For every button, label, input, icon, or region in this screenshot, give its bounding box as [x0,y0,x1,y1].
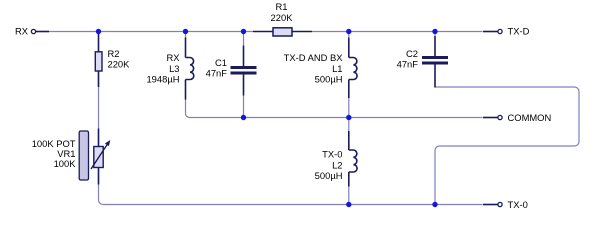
wire top rail left of R1 [49,31,253,33]
inductor L1 [284,32,357,99]
junction node top C1 [241,29,246,34]
junction node top C2 [432,29,437,34]
junction node common C1 [241,115,246,120]
wire L2 bottom [348,187,350,205]
junction node bottom L2 [346,202,351,207]
terminal RX [15,26,49,37]
svg-text:100K: 100K [54,158,77,169]
svg-text:47nF: 47nF [397,59,419,70]
svg-text:TX-0: TX-0 [508,199,528,210]
svg-text:RX: RX [166,52,180,63]
junction node top L1 [346,29,351,34]
svg-text:L2: L2 [332,159,342,170]
wire bottom rail from pot corner [99,185,483,205]
svg-text:220K: 220K [108,58,131,69]
svg-text:1948µH: 1948µH [146,74,179,85]
wire C2 routed to bottom rail [435,87,579,205]
svg-text:COMMON: COMMON [508,112,552,123]
svg-text:L3: L3 [169,63,179,74]
junction node top L3 [183,29,188,34]
junction node top R2 [96,29,101,34]
junction node bottom C2 wire [432,202,437,207]
svg-text:47nF: 47nF [206,68,228,79]
svg-text:500µH: 500µH [315,170,343,181]
svg-text:R1: R1 [276,1,288,12]
wire L2 top [348,118,350,132]
wire L1 bottom [348,98,350,118]
resistor R1 [253,1,312,36]
potentiometer VR1 [32,129,111,185]
svg-text:C2: C2 [406,48,418,59]
capacitor C1 [206,32,257,96]
wire top rail right of R1 [312,31,483,33]
svg-text:RX: RX [15,26,29,37]
wire R2 to VR1 [98,87,100,129]
inductor L2 [315,131,357,187]
terminal TX-D [483,26,530,37]
svg-text:500µH: 500µH [315,74,343,85]
wire COMMON rail from L3 corner [186,100,483,118]
capacitor C2 [397,32,448,88]
svg-text:L1: L1 [332,63,342,74]
svg-text:TX-0: TX-0 [322,149,342,160]
inductor L3 [146,32,193,100]
svg-text:TX-D AND BX: TX-D AND BX [284,52,344,63]
resistor R2 [95,32,130,88]
terminal COMMON [483,112,551,123]
svg-text:C1: C1 [215,57,227,68]
terminal TX-0 [483,199,528,210]
wire C1 bottom [243,96,245,118]
svg-text:220K: 220K [271,12,294,23]
svg-text:TX-D: TX-D [508,26,530,37]
junction node common L1 L2 [346,115,351,120]
